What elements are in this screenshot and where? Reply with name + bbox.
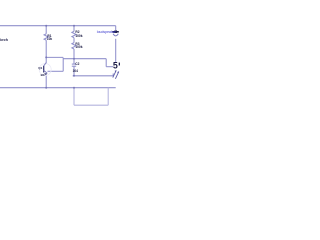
label R3 value [75,45,82,49]
resistor R1 [44,34,48,40]
wire R3 to node [73,49,75,59]
Q1 base bar [43,66,45,73]
resistor R2 [72,31,76,37]
label C2 value [73,69,78,73]
wire R1 column top [45,26,47,34]
wire Q1 base horizontal [48,70,64,72]
wire base riser [62,58,64,72]
node mid R3 [73,58,75,60]
wire C2 to out line [73,66,75,76]
node battery left [73,87,75,89]
wire battery rise right [107,88,109,106]
label R1 value [47,37,52,41]
wire inner branch down [105,59,107,67]
wire node to C2 [73,59,75,64]
resistor R3 [72,43,76,49]
label R2 designator [75,30,79,34]
wire feedback horizontal [63,58,106,60]
wire output corner up [112,73,114,75]
arrow 2 [115,72,118,79]
speaker symbol [112,30,118,35]
transistor Q1 circle [39,64,51,76]
node collector branch [45,56,47,58]
label audio-in (cropped) [0,38,8,42]
Q1 emitter arrowhead [44,73,47,75]
speaker plates [112,31,118,33]
label R1 designator [47,34,51,38]
Q1 emitter diagonal [44,70,48,73]
arrowheads [115,70,117,72]
wire collector branch horizontal [46,56,63,58]
node out [73,75,75,77]
label Q1 type [41,73,45,77]
wire battery drop left [73,88,75,106]
junction node dots [45,25,75,89]
wire bottom bus [0,87,116,89]
speaker dome [113,34,118,36]
wire right edge drop [115,26,117,30]
wire R2 to R3 [73,38,75,43]
transistor Q1 body [44,63,48,74]
wire R1 to Q1 [45,40,47,63]
wire output horizontal [73,75,114,77]
node emitter bus [45,87,47,89]
edge mark [119,63,120,66]
label Q1 designator [38,66,42,70]
capacitor C2 bottom plate [72,65,76,67]
wire battery bottom [74,104,108,106]
wire Q1 emitter down [45,76,47,88]
label C2 designator [75,62,79,66]
wire inner branch horizontal [106,66,113,68]
capacitor C2 top plate [72,63,76,65]
diode arrows right [113,70,119,78]
label loudspeaker blue [97,30,116,34]
arrow 1 [113,70,116,77]
label R2 value [75,34,82,38]
wire top bus [0,25,116,27]
wire R2 column top [73,26,75,32]
node top R1 [45,25,47,27]
label R3 designator [75,42,79,46]
wire speaker to node [115,39,117,62]
Q1 collector diagonal [44,63,47,66]
speaker core [114,30,117,33]
node top R2 [73,25,75,27]
svg-text:5: 5 [113,61,118,71]
